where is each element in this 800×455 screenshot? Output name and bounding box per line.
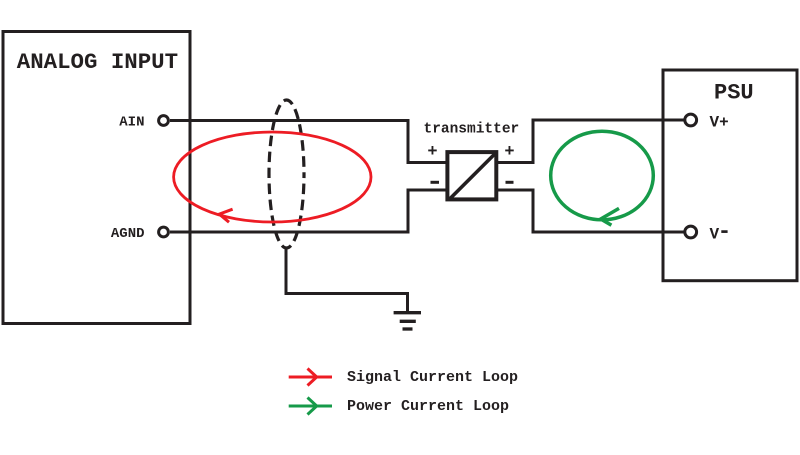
svg-text:AGND: AGND [111,226,145,242]
terminal V- [685,226,697,238]
svg-text:V+: V+ [710,113,729,131]
ground [394,313,421,329]
transmitter U1 [447,152,496,199]
svg-text:AIN: AIN [119,115,144,131]
legend arrow power (green) [289,398,332,415]
svg-text:+: + [427,143,437,162]
terminal AGND [159,227,169,237]
svg-text:V: V [710,225,720,243]
power current loop (green circle with arrow) [551,131,654,225]
wire shield to ground [286,248,408,311]
svg-text:Signal Current Loop: Signal Current Loop [347,369,518,386]
pin label - (right) [506,181,514,184]
svg-text:ANALOG INPUT: ANALOG INPUT [17,49,178,75]
wire transmitter - output to PSU V- [498,190,684,232]
wire AIN to transmitter + input [170,121,446,163]
wire transmitter + output to PSU V+ [498,120,684,163]
svg-text:transmitter: transmitter [424,122,520,138]
cable shield (dashed ellipse) [269,100,304,248]
analog input module box [3,32,190,324]
PSU box [663,70,797,281]
wire AGND to transmitter - input [170,190,446,232]
svg-text:+: + [504,143,514,162]
signal current loop (red ellipse with arrow) [174,132,371,222]
svg-text:PSU: PSU [714,80,754,105]
pin label - (left) [431,181,440,184]
terminal AIN [159,116,169,126]
legend arrow signal (red) [289,369,332,386]
terminal V+ [685,114,697,126]
svg-text:Power Current Loop: Power Current Loop [347,398,509,415]
